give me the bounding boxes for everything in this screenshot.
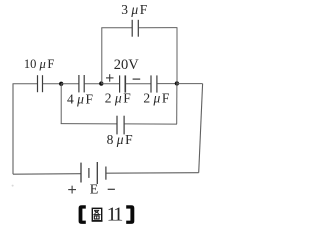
polarity plus sign of 20V xyxy=(106,74,114,82)
svg-text:20V: 20V xyxy=(114,57,140,73)
svg-text:2 μF: 2 μF xyxy=(105,90,132,105)
capacitor C1 10uF xyxy=(38,75,43,92)
wire: 8uF branch bottom left segment xyxy=(61,123,117,125)
svg-text:4 μF: 4 μF xyxy=(67,91,94,106)
svg-text:10 μF: 10 μF xyxy=(24,57,55,71)
wire: 8uF branch left vertical from node A xyxy=(60,84,62,124)
wire: C2 to node B xyxy=(85,83,102,85)
capacitor C3 2uF (left) xyxy=(120,75,126,92)
capacitor C6 8uF xyxy=(117,116,124,135)
node A junction dot xyxy=(59,82,63,86)
wire: node A to C2 left plate xyxy=(61,83,78,85)
battery plus terminal label xyxy=(68,186,76,194)
caption glyph: Chinese character TU (figure) xyxy=(92,208,103,221)
wire: C4 to node C xyxy=(157,83,177,85)
node B junction dot xyxy=(99,81,103,85)
wire: node C to top right corner xyxy=(177,83,203,85)
wire: C3 to C4 xyxy=(126,83,151,85)
svg-text:3 μF: 3 μF xyxy=(121,2,148,17)
wire: 8uF branch right vertical to node C xyxy=(176,83,178,124)
node C junction dot xyxy=(175,81,179,85)
svg-text:8 μF: 8 μF xyxy=(107,132,134,147)
svg-text:E: E xyxy=(90,183,99,198)
svg-text:2 μF: 2 μF xyxy=(143,90,170,105)
wire: main row, left end to C1 left plate xyxy=(13,83,38,85)
wire: 3uF branch right vertical to node C xyxy=(176,28,178,84)
wire: 3uF branch left vertical from node B xyxy=(101,28,103,84)
caption opening bracket (CJK lenticular) xyxy=(79,205,86,224)
caption closing bracket (CJK lenticular) xyxy=(126,205,134,224)
wire: C1 to node A xyxy=(43,83,61,85)
wire: bottom left segment to battery xyxy=(13,173,81,176)
wire: node B to C3 left plate xyxy=(101,83,119,85)
battery minus terminal label xyxy=(108,188,115,190)
scan speck xyxy=(12,185,14,187)
capacitor C4 2uF (right) xyxy=(151,75,157,92)
wire: 3uF branch top right segment xyxy=(139,27,178,29)
svg-text:11: 11 xyxy=(107,203,123,225)
polarity minus sign of 20V xyxy=(133,78,141,80)
wire: 8uF branch bottom right segment xyxy=(124,123,177,125)
capacitor C5 3uF xyxy=(132,20,138,37)
battery E cell plates xyxy=(81,162,106,184)
wire: 3uF branch top left segment xyxy=(101,27,132,29)
wire: outer right vertical (slight scan slant) xyxy=(199,84,203,173)
capacitor C2 4uF xyxy=(79,75,84,92)
wire: battery to bottom right corner xyxy=(106,172,198,175)
wire: outer left vertical xyxy=(12,84,14,174)
